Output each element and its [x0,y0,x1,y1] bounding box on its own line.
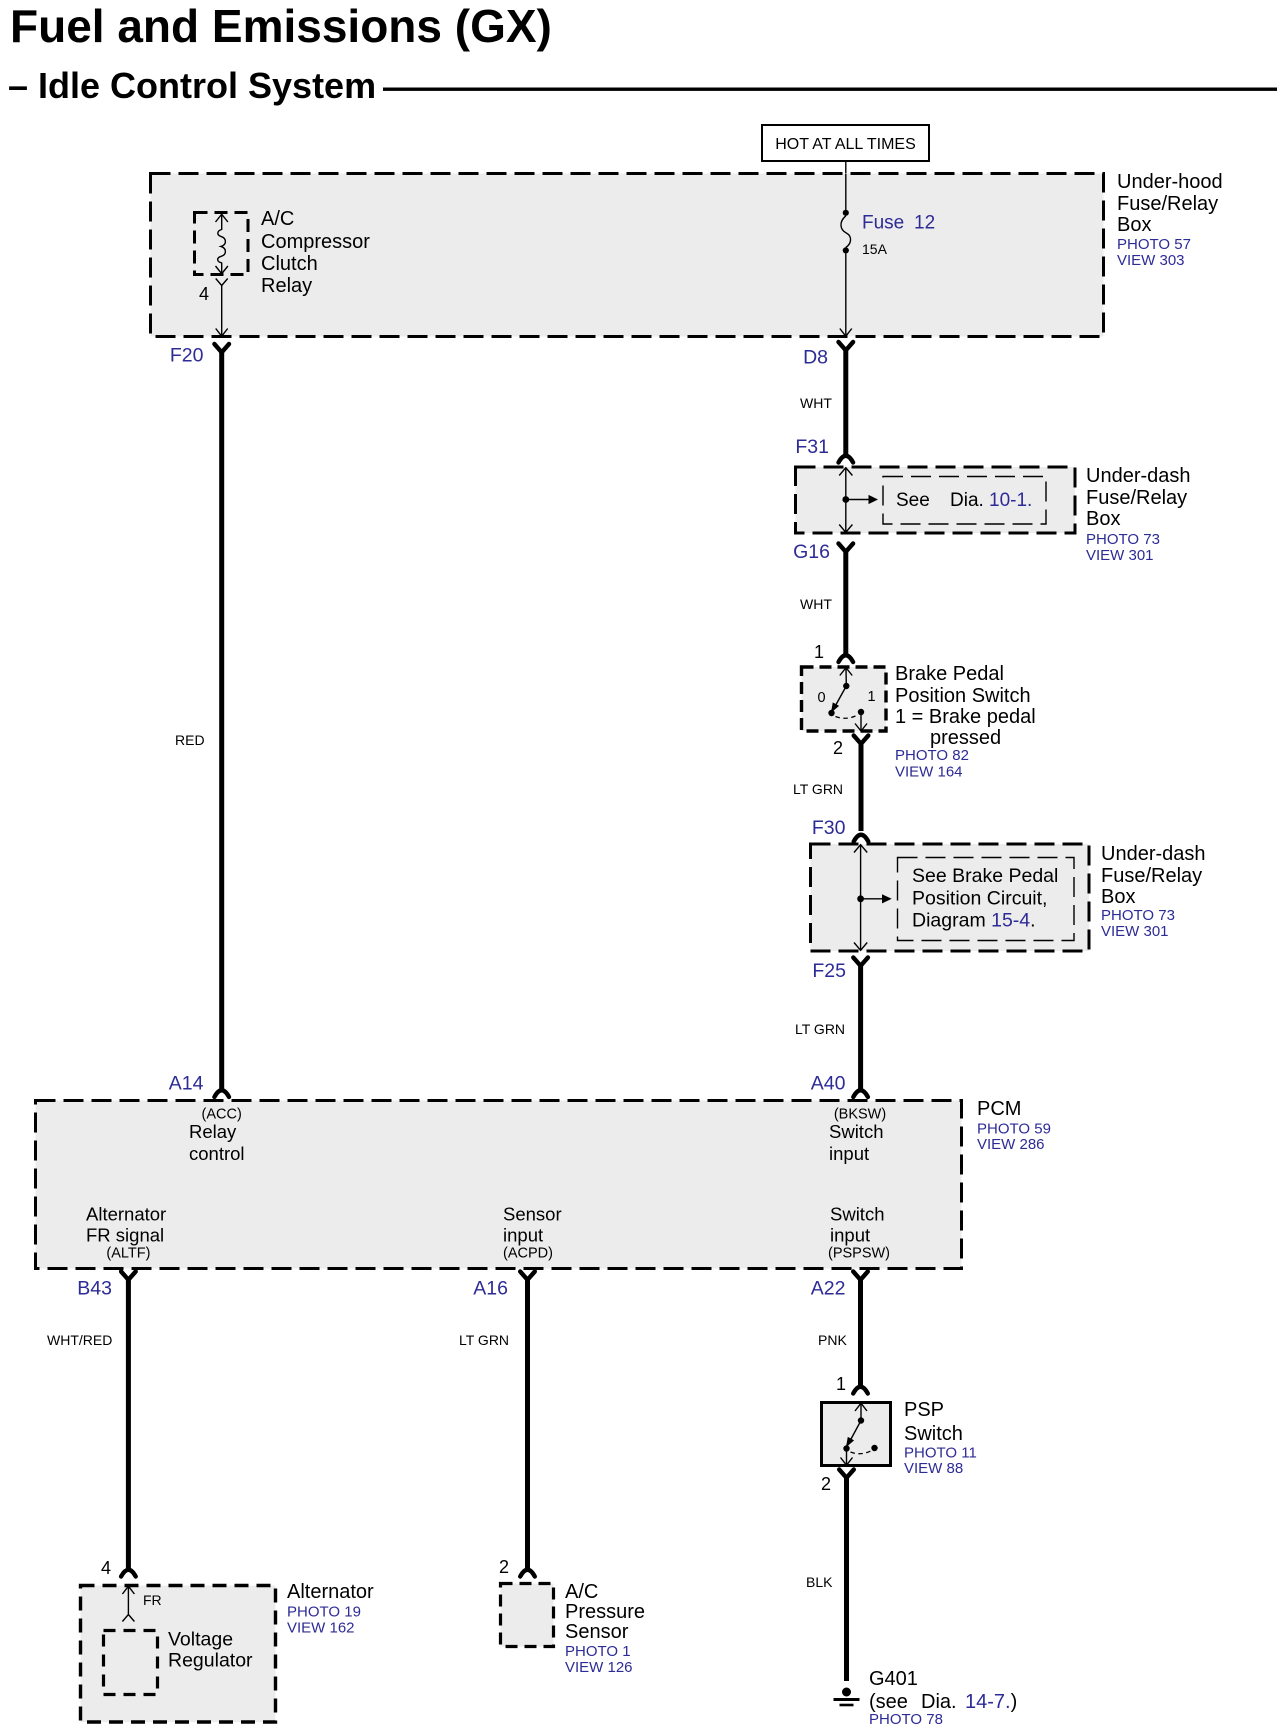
svg-text:Sensor: Sensor [565,1621,629,1643]
header rule [383,88,1277,91]
brake pedal position switch box [802,667,887,731]
PCM pin B43 label Alternator FR signal (ALTF) [86,1204,166,1262]
svg-text:WHT: WHT [800,596,832,612]
junction dot in under-dash box 2 [857,895,864,902]
svg-text:HOT AT ALL TIMES: HOT AT ALL TIMES [775,136,916,153]
svg-text:RED: RED [175,732,205,748]
svg-text:PHOTO 73: PHOTO 73 [1101,907,1175,924]
wire A16 to A/C pressure sensor (LT GRN) [525,1279,530,1569]
connector G16 [793,541,853,563]
svg-text:1: 1 [836,1374,846,1394]
wire PSP switch to ground G401 (BLK) [844,1477,849,1682]
svg-text:– Idle Control System: – Idle Control System [8,65,376,106]
wire F20 to A14 (RED) [219,351,224,1089]
see brake pedal position circuit reference box [898,858,1075,941]
svg-text:Pressure: Pressure [565,1601,645,1623]
relay pin 4 connector fork [216,279,228,286]
svg-text:A22: A22 [811,1278,846,1300]
svg-text:FR: FR [143,1592,162,1608]
svg-text:G16: G16 [793,541,830,563]
svg-text:(PSPSW): (PSPSW) [828,1246,890,1262]
label Brake Pedal Position Switch [895,663,1036,749]
label PSP Switch [904,1399,963,1445]
svg-text:See: See [896,490,930,511]
svg-text:Box: Box [1101,886,1135,908]
under-dash box 1 internal wire with arrows [839,468,852,533]
svg-text:A14: A14 [169,1073,204,1095]
svg-text:Under-hood: Under-hood [1117,171,1223,193]
svg-text:VIEW 301: VIEW 301 [1086,547,1154,564]
junction dot in under-dash box 1 [842,496,849,503]
svg-text:A16: A16 [473,1278,508,1300]
arrow from junction to brake pedal circuit box [861,894,892,903]
svg-text:Clutch: Clutch [261,253,318,275]
svg-text:Switch: Switch [830,1204,885,1225]
svg-text:LT GRN: LT GRN [793,781,843,797]
svg-text:Relay: Relay [261,275,312,297]
svg-text:10-1.: 10-1. [989,490,1032,511]
svg-text:Box: Box [1117,214,1151,236]
svg-text:Under-dash: Under-dash [1101,843,1206,865]
svg-text:(see Dia. 14-7.): (see Dia. 14-7.) [869,1691,1017,1713]
under-dash box 2 internal wire with arrows [854,845,867,951]
connector F30 [812,817,868,842]
label A/C Compressor Clutch Relay [261,208,370,297]
connector A40 [811,1073,868,1098]
svg-text:VIEW 303: VIEW 303 [1117,252,1185,269]
label Under-hood Fuse/Relay Box [1117,171,1223,236]
svg-text:B43: B43 [77,1278,112,1300]
svg-text:control: control [189,1143,245,1164]
svg-text:A/C: A/C [261,208,294,230]
svg-text:A/C: A/C [565,1581,598,1603]
svg-text:Diagram 15-4.: Diagram 15-4. [912,910,1036,932]
svg-text:1: 1 [814,642,824,662]
svg-text:4: 4 [199,284,209,304]
svg-text:(ALTF): (ALTF) [106,1246,150,1262]
arrow from junction to see-dia box [846,495,878,504]
svg-text:Position Switch: Position Switch [895,685,1031,707]
connector F31 [795,436,853,463]
svg-text:F25: F25 [812,960,846,982]
svg-text:2: 2 [833,738,843,758]
connector F20 [170,344,229,367]
svg-text:input: input [830,1225,870,1246]
svg-text:See Brake Pedal: See Brake Pedal [912,865,1058,887]
relay box: A/C compressor clutch relay [195,213,249,275]
svg-text:pressed: pressed [930,727,1001,749]
svg-text:VIEW 164: VIEW 164 [895,764,963,781]
svg-text:Fuse/Relay: Fuse/Relay [1117,193,1218,215]
svg-text:F31: F31 [795,436,829,458]
wire B43 to alternator (WHT/RED) [126,1279,131,1569]
svg-text:Box: Box [1086,508,1120,530]
svg-text:PHOTO 19: PHOTO 19 [287,1604,361,1621]
wire from HOT AT ALL TIMES to under-hood box [845,161,847,174]
PCM pin A14 label (ACC) Relay control [189,1107,245,1165]
wire D8 to F31 (WHT) [843,349,848,455]
label Under-dash Fuse/Relay Box (2) [1101,843,1206,908]
svg-text:15A: 15A [862,241,888,257]
under-dash fuse/relay box 2 [811,844,1090,951]
svg-text:1 = Brake pedal: 1 = Brake pedal [895,706,1036,728]
svg-text:Compressor: Compressor [261,231,370,253]
svg-text:Fuel and Emissions (GX): Fuel and Emissions (GX) [10,0,552,52]
fuse 12 symbol [841,210,851,254]
svg-text:Dia.: Dia. [950,490,984,511]
connector A22 [811,1272,868,1300]
see Dia. 10-1. reference box [883,477,1046,525]
connector A16 [473,1272,535,1300]
label Under-dash Fuse/Relay Box (1) [1086,465,1191,530]
PCM pin A16 label Sensor input (ACPD) [503,1204,562,1262]
wire G16 to brake pedal position switch (WHT) [843,551,848,655]
svg-text:A40: A40 [811,1073,846,1095]
svg-text:BLK: BLK [806,1574,833,1590]
A/C pressure sensor box [501,1584,554,1647]
svg-text:PHOTO 57: PHOTO 57 [1117,236,1191,253]
svg-text:Regulator: Regulator [168,1650,253,1672]
connector at alternator pin 4 [121,1570,136,1577]
connector A14 [169,1073,229,1098]
connector F25 [812,958,868,983]
svg-text:Fuse/Relay: Fuse/Relay [1101,865,1202,887]
svg-text:PHOTO 78: PHOTO 78 [869,1711,943,1728]
wire brake switch to F30 (LT GRN) [859,743,864,832]
svg-text:Fuse/Relay: Fuse/Relay [1086,487,1187,509]
svg-text:Switch: Switch [904,1423,963,1445]
svg-text:PHOTO 82: PHOTO 82 [895,747,969,764]
svg-text:F20: F20 [170,345,204,367]
label Voltage Regulator [168,1629,253,1672]
svg-text:PSP: PSP [904,1399,944,1421]
PCM pin A22 label Switch input (PSPSW) [828,1204,890,1262]
PCM pin A40 label (BKSW) Switch input [829,1107,886,1165]
alternator box [81,1586,276,1723]
svg-text:4: 4 [101,1558,111,1578]
label A/C Pressure Sensor [565,1581,645,1643]
wire A22 to PSP switch (PNK) [858,1279,863,1387]
PSP switch symbol [841,1403,878,1465]
svg-text:D8: D8 [803,347,828,369]
relay coil symbol [216,214,228,274]
svg-text:PHOTO 59: PHOTO 59 [977,1121,1051,1138]
svg-text:VIEW 301: VIEW 301 [1101,923,1169,940]
PSP switch box [822,1403,891,1466]
svg-text:Under-dash: Under-dash [1086,465,1191,487]
svg-text:PNK: PNK [818,1332,847,1348]
svg-text:input: input [503,1225,543,1246]
under-hood fuse/relay box [151,174,1104,337]
connector at brake switch pin 1 [839,655,854,662]
svg-text:Voltage: Voltage [168,1629,233,1651]
fuse F12 feed wire [845,174,847,211]
svg-text:Alternator: Alternator [86,1204,166,1225]
svg-text:VIEW 126: VIEW 126 [565,1659,633,1676]
svg-text:PHOTO 73: PHOTO 73 [1086,531,1160,548]
svg-text:0: 0 [817,690,825,706]
svg-text:WHT/RED: WHT/RED [47,1332,112,1348]
svg-text:PHOTO 11: PHOTO 11 [904,1445,977,1462]
under-dash fuse/relay box 1 [796,467,1076,533]
brake switch symbol [828,668,867,732]
wire F25 to A40 (LT GRN) [858,965,863,1090]
svg-text:G401: G401 [869,1668,918,1690]
svg-text:VIEW 286: VIEW 286 [977,1136,1045,1153]
wire relay pin 4 to box edge [216,285,228,336]
svg-text:Relay: Relay [189,1121,237,1142]
svg-text:PCM: PCM [977,1098,1021,1120]
svg-text:1: 1 [867,689,875,705]
svg-text:2: 2 [499,1557,509,1577]
alternator FR terminal symbol [122,1586,134,1622]
svg-text:Brake Pedal: Brake Pedal [895,663,1004,685]
fuse output wire to box edge [840,253,852,336]
PCM box [36,1101,962,1269]
svg-text:VIEW 88: VIEW 88 [904,1460,963,1477]
svg-text:LT GRN: LT GRN [459,1332,509,1348]
svg-text:WHT: WHT [800,395,832,411]
svg-text:(ACPD): (ACPD) [503,1246,553,1262]
svg-text:PHOTO 1: PHOTO 1 [565,1643,631,1660]
connector at brake switch pin 2 [854,736,869,744]
svg-text:Switch: Switch [829,1121,884,1142]
connector at PSP switch pin 2 [839,1470,854,1478]
connector D8 [803,342,853,369]
svg-text:Sensor: Sensor [503,1204,562,1225]
svg-text:FR signal: FR signal [86,1225,164,1246]
connector at A/C pressure sensor pin 2 [520,1570,535,1577]
connector at PSP switch pin 1 [853,1387,868,1394]
label HOT AT ALL TIMES [762,125,929,161]
voltage regulator box [104,1631,158,1695]
svg-text:input: input [829,1143,869,1164]
svg-text:Position Circuit,: Position Circuit, [912,888,1047,910]
svg-text:2: 2 [821,1474,831,1494]
ground G401 [834,1688,860,1707]
svg-text:Fuse 12: Fuse 12 [862,213,935,234]
svg-text:F30: F30 [812,817,846,839]
svg-text:Alternator: Alternator [287,1581,374,1603]
svg-text:VIEW 162: VIEW 162 [287,1620,355,1637]
connector B43 [77,1272,135,1300]
svg-text:LT GRN: LT GRN [795,1021,845,1037]
